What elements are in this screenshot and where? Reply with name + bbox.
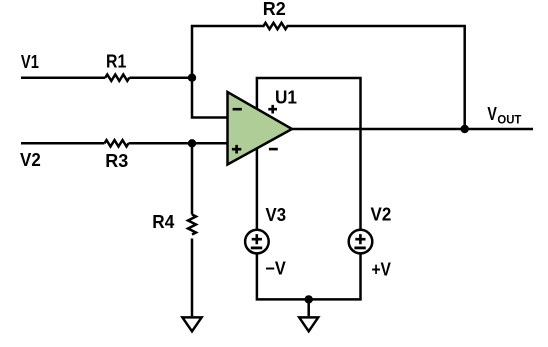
wire node A down to inverting input of op-amp (192, 78, 229, 118)
wire lower rails and bottom tie (257, 253, 361, 299)
ground (bottom center) (299, 317, 318, 331)
op-amp U1 triangle (228, 92, 293, 165)
svg-text:V: V (487, 104, 497, 124)
V2 source plus sign (355, 234, 365, 244)
resistor R4 (188, 215, 196, 235)
svg-text:R4: R4 (152, 212, 174, 232)
V2 source minus bar (354, 246, 365, 249)
V3 source plus sign (252, 234, 262, 244)
svg-text:V3: V3 (266, 205, 287, 225)
voltage source V3 circle (245, 230, 269, 254)
svg-text:−V: −V (265, 259, 286, 279)
svg-text:R3: R3 (105, 151, 128, 171)
svg-text:+V: +V (371, 259, 391, 279)
ground (below R4) (182, 317, 201, 331)
wire V1 input to node A (21, 76, 105, 79)
svg-text:R2: R2 (263, 0, 286, 19)
op-amp positive supply pin plus sign (268, 105, 277, 114)
svg-text:V2: V2 (371, 205, 392, 225)
wire node B down to R4 (191, 143, 194, 214)
op-amp non-inverting input plus sign (232, 145, 241, 154)
svg-text:V1: V1 (21, 52, 39, 72)
voltage source V2 circle (right) (349, 230, 373, 254)
resistor R3 (105, 140, 129, 146)
op-amp negative supply pin minus sign (269, 148, 278, 151)
wire feedback loop top: from node A up, across, down to output node (192, 23, 465, 129)
wire V2 input to R3 (21, 142, 105, 145)
svg-text:R1: R1 (106, 52, 126, 72)
svg-text:V2: V2 (20, 150, 41, 170)
V3 source minus bar (251, 246, 262, 249)
junction node B (R3/R4/non-inverting input) (188, 139, 196, 147)
wire ground stub at bottom center (307, 299, 310, 316)
op-amp inverting input minus sign (233, 108, 242, 111)
resistor R1 (105, 75, 129, 81)
svg-text:U1: U1 (275, 88, 297, 108)
wire supply rails: left rail up, top tie, right rail down (257, 78, 361, 230)
wire output from op-amp apex to VOUT (292, 128, 533, 131)
junction node A (R1/R2/inverting input) (188, 74, 196, 82)
junction node output (461, 125, 469, 133)
junction node bottom ground (305, 295, 313, 303)
svg-text:OUT: OUT (497, 113, 522, 127)
wire R1 to node A (129, 76, 192, 79)
wire R4 to ground (191, 239, 194, 317)
wire R3 through node B to non-inverting input (129, 142, 229, 145)
